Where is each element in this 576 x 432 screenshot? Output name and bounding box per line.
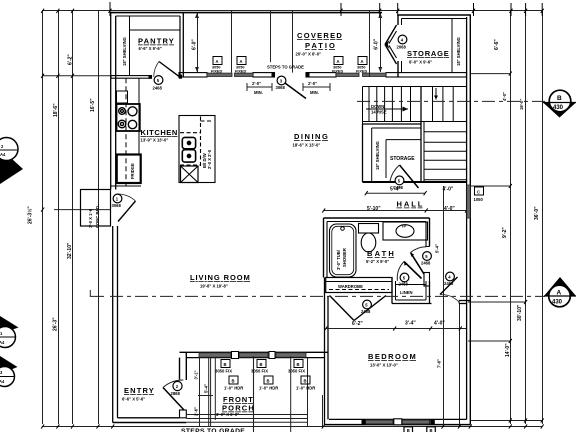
porch dim line b — [210, 358, 212, 426]
bifold inner marks — [389, 31, 397, 58]
bottom-left wall inner — [118, 417, 180, 419]
svg-text:LIVING ROOM: LIVING ROOM — [190, 273, 250, 282]
pantry shelf vertical line — [129, 16, 131, 76]
SECTION: section line A — [90, 290, 545, 296]
kitchen-pantry door jamb right — [178, 75, 180, 78]
east wall inner — [466, 17, 468, 419]
west wall inner — [115, 16, 117, 190]
toilet tank — [359, 224, 379, 234]
toilet bowl — [361, 233, 376, 252]
bedroom door leaf — [440, 277, 458, 295]
living south wall top line — [180, 351, 328, 353]
patio ext line stair — [369, 11, 371, 77]
porch mid line — [253, 356, 255, 432]
entry east jamb outer — [185, 352, 187, 380]
right ext y341 — [468, 340, 511, 342]
window patio 2 — [235, 73, 254, 76]
wardrobe inner line — [326, 281, 392, 283]
svg-text:B: B — [407, 428, 410, 432]
svg-text:16'-0": 16'-0" — [519, 99, 524, 110]
svg-text:3'-0" TUB/: 3'-0" TUB/ — [336, 249, 341, 270]
svg-text:STORAGE: STORAGE — [390, 156, 415, 162]
bath east wall upper — [425, 222, 427, 247]
left line slashes — [41, 74, 74, 212]
svg-text:2468: 2468 — [399, 282, 409, 287]
linen left wall — [391, 278, 393, 304]
annex top wall — [398, 14, 471, 16]
patio door jamb blocks — [272, 72, 276, 77]
svg-text:5'-4": 5'-4" — [390, 187, 401, 193]
svg-text:DINING: DINING — [294, 132, 328, 141]
marker L1 — [0, 148, 23, 184]
svg-text:A4: A4 — [0, 340, 5, 345]
bedroom west wall inner — [327, 296, 329, 419]
living south wall bottom line — [186, 357, 324, 359]
marker L2 — [0, 316, 19, 334]
sink small box — [117, 91, 128, 103]
right line slashes — [509, 72, 544, 423]
svg-text:3'-0" X 6'-0": 3'-0" X 6'-0" — [216, 412, 239, 417]
svg-text:18'-6": 18'-6" — [53, 103, 59, 117]
dishwasher box — [181, 166, 199, 183]
porch step 1 — [186, 414, 307, 416]
left dim line 1 — [42, 11, 44, 424]
bedroom window 2 — [402, 420, 430, 424]
bedroom door number — [446, 272, 455, 281]
svg-text:STEPS TO GRADE: STEPS TO GRADE — [267, 65, 304, 70]
right dim line 1 — [510, 11, 512, 424]
svg-text:A: A — [361, 59, 364, 64]
svg-text:2868: 2868 — [171, 391, 181, 396]
bedroom west wall outer — [324, 278, 326, 425]
svg-text:2468: 2468 — [444, 281, 454, 286]
svg-text:2468: 2468 — [153, 86, 163, 91]
patio wall seg4 — [386, 73, 467, 77]
SECTION: linen — [392, 278, 432, 304]
pantry bottom wall — [111, 76, 152, 79]
pantry top inner line — [116, 15, 180, 17]
svg-text:A: A — [216, 59, 219, 64]
SECTION: bottom boxed labels — [404, 427, 413, 432]
range box 2 — [182, 150, 195, 162]
svg-text:2068: 2068 — [397, 45, 407, 50]
svg-text:30'-10": 30'-10" — [517, 304, 523, 321]
island outline — [179, 116, 215, 183]
svg-text:STEPS TO GRADE: STEPS TO GRADE — [181, 428, 245, 432]
SECTION: storage annex top right — [385, 15, 471, 77]
tub faucet — [341, 227, 345, 231]
svg-text:18" SHELVING: 18" SHELVING — [375, 141, 380, 170]
top dimension line — [42, 10, 542, 12]
window label C — [475, 187, 484, 195]
svg-text:FRIDGE: FRIDGE — [130, 163, 135, 179]
svg-text:2'-0": 2'-0" — [252, 81, 261, 86]
patio ext line b — [270, 11, 272, 62]
bedroom north wall right piece — [459, 300, 470, 302]
svg-text:3050 FIX: 3050 FIX — [215, 369, 232, 374]
svg-text:3068: 3068 — [112, 203, 122, 208]
svg-text:FIXED: FIXED — [211, 69, 222, 73]
svg-text:13'-9" X 13'-0": 13'-9" X 13'-0" — [141, 138, 169, 143]
stair treads vertical — [368, 87, 370, 122]
svg-text:6'-6" X 9'-6": 6'-6" X 9'-6" — [139, 46, 162, 51]
stair top edge — [363, 86, 467, 88]
pantry door arc — [154, 62, 159, 77]
svg-text:COVERED: COVERED — [297, 31, 342, 40]
pantry right wall inner — [179, 16, 181, 76]
window patio 4 — [363, 73, 387, 76]
svg-text:3'-1": 3'-1" — [194, 370, 199, 379]
SECTION: pantry — [116, 13, 184, 77]
bath door leaf — [411, 253, 425, 275]
left extension line — [98, 11, 100, 424]
porch dim line a — [208, 358, 210, 426]
svg-text:A: A — [240, 59, 243, 64]
svg-text:2'-0": 2'-0" — [308, 81, 317, 86]
stair closet wall right — [420, 87, 422, 183]
hall upper dim line — [366, 192, 425, 194]
bath top wall — [324, 217, 430, 219]
svg-text:3068: 3068 — [276, 85, 286, 90]
right ext y72 — [470, 73, 511, 75]
west wall lower inner — [117, 226, 119, 418]
bedroom window jamb R — [430, 420, 435, 424]
svg-text:1050: 1050 — [474, 197, 484, 202]
hall ext vertical — [443, 186, 445, 427]
svg-text:3050 FIX: 3050 FIX — [251, 369, 268, 374]
pantry shelf top line — [130, 29, 181, 31]
left leader to conc pad — [54, 209, 110, 211]
svg-text:1'-0" HDR: 1'-0" HDR — [296, 386, 315, 391]
porch line c — [214, 358, 216, 420]
top line slashes — [41, 9, 544, 13]
bath west wall — [323, 218, 325, 278]
SECTION: exterior walls — [81, 12, 471, 425]
annex left wall lower — [397, 61, 399, 77]
svg-text:CONC PAD: CONC PAD — [95, 206, 100, 228]
counter edge — [138, 78, 140, 154]
porch step 2 — [186, 418, 307, 420]
right ext y420 — [470, 420, 542, 422]
svg-text:ENTRY: ENTRY — [124, 386, 154, 395]
svg-text:C: C — [477, 190, 480, 195]
bedroom dim slashes — [324, 326, 461, 330]
SECTION: stairs — [363, 87, 467, 183]
bedroom window mullion — [394, 419, 402, 425]
understair door leaf — [400, 165, 419, 188]
window patio 3 — [336, 73, 359, 76]
range box 1 — [182, 137, 195, 148]
pantry right wall outer — [182, 13, 184, 77]
svg-text:14 RISE: 14 RISE — [371, 110, 387, 115]
svg-text:36'-0": 36'-0" — [534, 206, 540, 220]
svg-text:KITCHEN: KITCHEN — [141, 128, 178, 137]
svg-text:7'-6": 7'-6" — [437, 359, 442, 368]
stair bottom wall — [363, 181, 467, 183]
linen right wall — [425, 281, 427, 300]
svg-text:4'-0": 4'-0" — [434, 321, 445, 327]
right ext y186 — [470, 185, 511, 187]
SECTION: bedroom — [459, 301, 470, 304]
mullion LS1 — [232, 352, 239, 359]
cooktop box — [117, 104, 140, 131]
bedroom window 1 — [366, 420, 394, 424]
closet door leaf — [118, 201, 136, 222]
svg-text:LINEN: LINEN — [400, 290, 413, 295]
wardrobe rod dashed — [329, 289, 389, 291]
patio wall seg2 mid — [253, 73, 275, 77]
svg-text:4'-0": 4'-0" — [443, 187, 454, 193]
stair closet top — [363, 123, 422, 125]
bath door number — [423, 252, 432, 261]
svg-text:A4: A4 — [0, 152, 6, 157]
svg-text:3'-0 X 1'-6: 3'-0 X 1'-6 — [88, 208, 93, 228]
porch line e — [290, 356, 292, 432]
svg-text:18" SHELVING: 18" SHELVING — [122, 37, 127, 66]
svg-text:6'-6": 6'-6" — [494, 39, 500, 50]
bottom dimension line — [42, 426, 542, 428]
SECTION: bath — [324, 218, 430, 286]
ext line hall right b — [459, 304, 461, 427]
svg-text:6'-0": 6'-0" — [192, 39, 198, 50]
SECTION: section line B — [357, 100, 545, 102]
bifold door chevron lower — [385, 45, 397, 65]
vanity — [383, 222, 428, 240]
svg-text:2'-6": 2'-6" — [194, 407, 199, 416]
mullion LS2 — [269, 352, 275, 359]
fridge box — [117, 155, 141, 184]
linen top shelf — [396, 284, 427, 286]
svg-text:6'-2": 6'-2" — [352, 321, 363, 327]
svg-text:32'-10": 32'-10" — [67, 242, 73, 259]
wardrobe box — [326, 278, 392, 293]
left dim line 2 — [58, 11, 60, 424]
bath door arc — [411, 247, 427, 253]
annex top inner — [402, 18, 467, 20]
window label A3 — [332, 57, 343, 74]
SECTION: east window C — [467, 185, 471, 218]
top wall pantry+patio — [111, 12, 382, 14]
bath east wall post — [424, 273, 430, 287]
patio wall seg1 — [179, 73, 207, 77]
bottom line slashes — [41, 424, 544, 428]
svg-text:WARDROBE: WARDROBE — [338, 284, 363, 289]
bedroom south wall inner — [329, 418, 467, 420]
svg-text:5'-4": 5'-4" — [435, 244, 440, 253]
understair door number — [395, 176, 404, 185]
svg-text:A4: A4 — [0, 379, 5, 384]
patio depth dim line — [197, 13, 199, 72]
svg-text:PANTRY: PANTRY — [138, 37, 174, 46]
svg-text:6'-6" X 5'-6": 6'-6" X 5'-6" — [122, 397, 145, 402]
svg-text:A: A — [337, 59, 340, 64]
patio dim line d — [380, 13, 382, 72]
svg-text:1'-0" HDR: 1'-0" HDR — [224, 386, 243, 391]
marker A — [544, 277, 576, 296]
svg-text:13'-0" X 13'-0": 13'-0" X 13'-0" — [370, 363, 398, 368]
linen door arc — [397, 262, 404, 281]
svg-text:18" SHELVING: 18" SHELVING — [456, 37, 461, 66]
patio ext line c — [292, 11, 294, 73]
svg-text:B: B — [267, 379, 270, 384]
marker B — [543, 103, 576, 118]
window patio 1 — [207, 73, 232, 76]
svg-text:STORAGE: STORAGE — [407, 49, 449, 58]
SECTION: tick marks top — [110, 2, 542, 16]
svg-text:TP: TP — [401, 224, 407, 229]
bifold arrowhead lower — [385, 44, 390, 49]
entry door leaf — [163, 388, 184, 411]
svg-text:6'-2": 6'-2" — [68, 54, 74, 65]
west wall outer — [110, 12, 112, 190]
entry door number — [173, 381, 182, 390]
SECTION: wardrobe — [326, 278, 392, 293]
svg-text:18'-6" X 13'-0": 18'-6" X 13'-0" — [293, 143, 321, 148]
svg-text:9'-2": 9'-2" — [502, 227, 508, 238]
svg-text:FIXED: FIXED — [356, 69, 367, 73]
vanity sink — [396, 225, 414, 238]
svg-text:430: 430 — [553, 105, 564, 111]
svg-text:4'-0": 4'-0" — [444, 206, 455, 212]
svg-text:MIN.: MIN. — [310, 90, 319, 95]
kitchen door jamb blocks — [149, 75, 152, 79]
wardrobe door number — [363, 300, 372, 309]
svg-text:B: B — [224, 362, 227, 367]
svg-text:26'-3": 26'-3" — [53, 317, 59, 331]
west wall lower outer — [112, 226, 114, 423]
SECTION: window labels row2 — [224, 376, 315, 391]
entry door arc — [163, 380, 183, 388]
pantry door leaf — [159, 62, 180, 77]
counter bottom — [111, 185, 141, 187]
left dim line 3 — [72, 11, 74, 424]
svg-text:14'-0": 14'-0" — [505, 343, 511, 357]
patio ext line a — [231, 11, 233, 73]
svg-text:5'-10": 5'-10" — [367, 206, 381, 212]
closet door number — [113, 194, 122, 203]
annex left wall upper — [397, 15, 399, 25]
porch east line — [307, 358, 309, 426]
patio wall seg3 — [306, 73, 336, 77]
patio door leaf — [278, 78, 307, 99]
stair lower treads — [424, 131, 467, 133]
window LS1 — [199, 353, 231, 357]
understair door arc — [390, 165, 400, 181]
linen bottom wall — [392, 303, 432, 305]
patio door number — [277, 76, 286, 85]
left ext y75.8 — [43, 75, 111, 77]
svg-text:1'-0" HDR: 1'-0" HDR — [259, 386, 278, 391]
pantry door number — [154, 76, 163, 85]
ext line bedroom west — [322, 395, 324, 427]
svg-text:B: B — [232, 379, 235, 384]
bifold arrowhead upper — [385, 40, 390, 45]
tub — [330, 224, 357, 277]
porch west line — [199, 358, 201, 426]
entry jamb foot — [180, 410, 187, 418]
svg-text:B: B — [297, 362, 300, 367]
SECTION: window labels row1 — [215, 360, 305, 374]
svg-text:B: B — [304, 379, 307, 384]
svg-text:FIXED: FIXED — [235, 69, 246, 73]
stair closet inner top — [372, 127, 421, 129]
svg-text:DOWN: DOWN — [371, 104, 384, 109]
bifold door chevron upper — [385, 25, 397, 45]
SECTION: island — [179, 116, 215, 183]
svg-text:PATIO: PATIO — [305, 41, 335, 50]
stair closet left — [362, 124, 364, 182]
SECTION: kitchen — [111, 78, 141, 186]
hall dim line — [324, 210, 467, 212]
SECTION: porch — [186, 356, 307, 432]
window LS3 — [276, 353, 306, 357]
porch step 3 — [186, 421, 307, 423]
entry east jamb inner — [179, 358, 181, 380]
svg-text:26'-3½": 26'-3½" — [27, 206, 34, 224]
linen door number — [400, 273, 409, 282]
marker L3 — [0, 356, 18, 374]
svg-text:2468: 2468 — [421, 261, 431, 266]
min dim right — [303, 83, 330, 91]
svg-text:MIN.: MIN. — [254, 90, 263, 95]
svg-text:20'-0" X 6'-0": 20'-0" X 6'-0" — [296, 52, 322, 57]
svg-text:A: A — [557, 290, 562, 297]
closet door arc — [117, 194, 136, 201]
bedroom dim line — [326, 328, 467, 330]
bottom-left wall outer — [113, 422, 187, 424]
SECTION: patio south wall with openings — [111, 73, 467, 79]
right dim line 3 — [542, 11, 544, 424]
east wall outer — [469, 15, 471, 425]
cooktop burners — [118, 107, 137, 129]
svg-text:4'-0": 4'-0" — [502, 92, 507, 101]
porch arrow leader — [198, 395, 213, 397]
bedroom door arc — [440, 294, 459, 302]
linen door leaf — [404, 262, 422, 279]
window label A1 — [211, 57, 222, 74]
svg-text:SHOWER: SHOWER — [342, 248, 347, 267]
window label A2 — [235, 57, 246, 74]
island dashed cross lines — [180, 132, 201, 134]
svg-text:FIXED: FIXED — [332, 69, 343, 73]
island divider dashed — [200, 117, 202, 167]
down arrow — [366, 108, 408, 110]
window label A4 — [356, 57, 367, 74]
conc pad box — [81, 190, 111, 227]
svg-text:6'-0" X 9'-6": 6'-0" X 9'-6" — [409, 60, 432, 65]
counter dashed — [125, 78, 127, 186]
svg-text:3050 FIX: 3050 FIX — [288, 369, 305, 374]
svg-text:5'-4": 5'-4" — [204, 384, 209, 393]
svg-text:19'-8" X 19'-8": 19'-8" X 19'-8" — [200, 284, 228, 289]
svg-text:BEDROOM: BEDROOM — [368, 352, 416, 361]
svg-text:B: B — [260, 362, 263, 367]
svg-text:5'-2" X 9'-0": 5'-2" X 9'-0" — [366, 259, 389, 264]
svg-text:3'-4": 3'-4" — [405, 321, 416, 327]
svg-text:2468: 2468 — [361, 309, 371, 314]
svg-text:2'-0 X 2'-0: 2'-0 X 2'-0 — [207, 149, 212, 169]
right dim line 2 — [525, 11, 527, 424]
right ext y302 — [468, 301, 526, 303]
svg-text:B: B — [430, 428, 433, 432]
svg-text:430: 430 — [552, 300, 563, 306]
stair mid line — [363, 121, 467, 123]
closet shelf L — [386, 140, 421, 178]
min dim left — [247, 83, 272, 91]
annex shelf line — [451, 19, 453, 73]
rise arrow right — [435, 88, 437, 100]
wardrobe doors V — [330, 296, 355, 321]
